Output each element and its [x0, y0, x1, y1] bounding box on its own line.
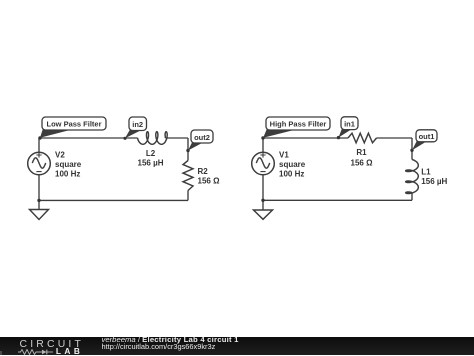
svg-text:out2: out2	[194, 133, 210, 142]
svg-text:156 µH: 156 µH	[421, 177, 447, 186]
svg-text:L2: L2	[146, 149, 156, 158]
svg-text:in2: in2	[132, 120, 143, 129]
svg-text:square: square	[55, 160, 82, 169]
svg-text:Low Pass Filter: Low Pass Filter	[46, 120, 101, 129]
svg-text:out1: out1	[419, 132, 435, 141]
svg-text:156 µH: 156 µH	[138, 159, 164, 168]
svg-text:V2: V2	[55, 151, 65, 160]
svg-text:High Pass Filter: High Pass Filter	[270, 120, 327, 129]
svg-text:156 Ω: 156 Ω	[351, 159, 374, 168]
svg-text:L1: L1	[421, 168, 431, 177]
svg-text:V1: V1	[279, 151, 289, 160]
svg-text:in1: in1	[344, 120, 355, 129]
svg-text:square: square	[279, 160, 306, 169]
svg-text:R1: R1	[356, 148, 367, 157]
svg-text:100 Hz: 100 Hz	[279, 170, 304, 179]
svg-text:100 Hz: 100 Hz	[55, 170, 80, 179]
svg-text:R2: R2	[198, 167, 209, 176]
svg-text:156 Ω: 156 Ω	[198, 177, 221, 186]
